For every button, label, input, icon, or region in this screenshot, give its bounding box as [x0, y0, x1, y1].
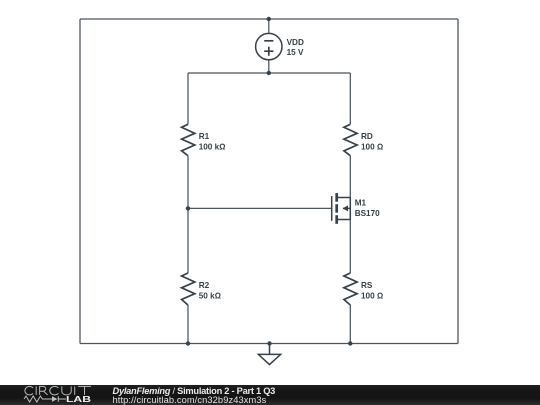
node ground tap	[267, 341, 271, 345]
wire R2 bottom lead	[187, 305, 189, 344]
node inner rail / VDD junction	[267, 71, 271, 75]
wire R1 to gate node	[187, 156, 189, 209]
wire RS bottom lead	[349, 305, 351, 344]
wire bottom rail	[80, 343, 458, 345]
resistor R1	[182, 124, 195, 155]
label R1 value	[199, 132, 226, 151]
logo CircuitLab	[0, 385, 110, 405]
wire inner top rail	[188, 72, 350, 74]
svg-text:100 Ω: 100 Ω	[361, 143, 383, 152]
wire gate node to R2	[187, 208, 189, 273]
node gate tap	[186, 206, 190, 210]
svg-text:50 kΩ: 50 kΩ	[199, 291, 221, 300]
label RD value	[361, 132, 383, 151]
wire VDD bottom stub	[268, 60, 270, 73]
svg-text:15 V: 15 V	[287, 48, 304, 57]
node RS bottom	[348, 341, 352, 345]
wire RD top lead	[349, 73, 351, 124]
wire right rail	[457, 19, 459, 344]
label VDD value	[287, 38, 304, 57]
wire R1 top lead	[187, 73, 189, 124]
wire source to RS	[349, 220, 351, 274]
node R2 bottom	[186, 341, 190, 345]
svg-text:100 kΩ: 100 kΩ	[199, 143, 226, 152]
svg-text:100 Ω: 100 Ω	[361, 291, 383, 300]
wire left rail	[79, 19, 81, 344]
svg-text:BS170: BS170	[355, 209, 380, 218]
wire gate horizontal	[188, 207, 332, 209]
ground	[258, 344, 280, 365]
resistor RD	[344, 124, 357, 155]
resistor RS	[344, 273, 357, 305]
voltage source VDD	[256, 33, 282, 59]
svg-text:VDD: VDD	[287, 38, 304, 47]
svg-text:RD: RD	[361, 132, 373, 141]
label R2 value	[199, 281, 221, 301]
wire VDD top stub	[268, 19, 270, 33]
svg-text:R2: R2	[199, 281, 210, 290]
node top rail / VDD junction	[267, 17, 271, 21]
footer title text	[113, 387, 276, 405]
svg-text:LAB: LAB	[66, 395, 91, 404]
label RS value	[361, 281, 383, 301]
transistor M1	[332, 193, 351, 224]
wire RD to drain	[349, 156, 351, 198]
footer bar	[0, 385, 540, 405]
label M1 value	[355, 199, 380, 218]
svg-text:RS: RS	[361, 281, 373, 290]
wire top rail	[80, 18, 458, 20]
svg-text:M1: M1	[355, 199, 367, 208]
svg-text:R1: R1	[199, 132, 210, 141]
resistor R2	[182, 273, 195, 305]
